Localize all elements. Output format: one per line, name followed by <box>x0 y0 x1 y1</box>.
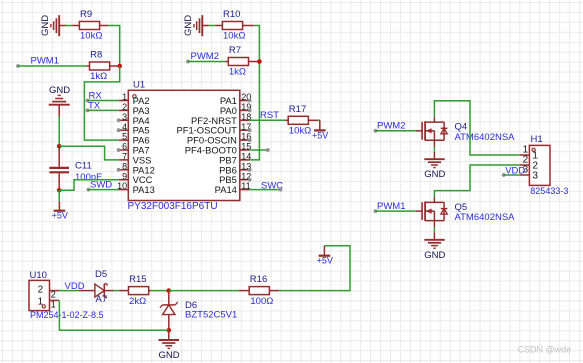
op-amp U1 body PY32F003F16P6TU <box>128 80 240 213</box>
U1 pin 6 PA7 <box>119 142 150 156</box>
ground GND (below Q5) <box>424 240 445 261</box>
svg-text:U1: U1 <box>133 80 145 91</box>
svg-text:PA13: PA13 <box>133 184 155 195</box>
svg-text:R9: R9 <box>80 9 92 20</box>
wire PWM2 to Q4 gate <box>376 130 416 132</box>
U1 pin 17 PF1-OSCOUT <box>176 122 251 136</box>
wire TX to pin 2 <box>88 109 119 111</box>
wire SWD to pin 10 <box>88 189 118 191</box>
power flag +5V (bottom) <box>317 246 333 266</box>
U10 pin 2 <box>50 290 60 300</box>
junction GND/C11/VSS node <box>57 144 62 149</box>
ground GND (bottom) <box>159 330 180 361</box>
svg-text:C11: C11 <box>75 160 92 171</box>
transistor Q5 ATM6402NSA <box>416 198 515 241</box>
svg-text:6: 6 <box>122 142 127 152</box>
svg-text:PA14: PA14 <box>215 184 237 195</box>
wire R15 to junction <box>151 290 169 292</box>
svg-text:PY32F003F16P6TU: PY32F003F16P6TU <box>128 201 218 212</box>
svg-text:A7: A7 <box>96 294 108 305</box>
H1 pin 1 <box>520 145 539 162</box>
net label SWC <box>261 180 283 191</box>
svg-text:CSDN @wde: CSDN @wde <box>518 345 572 355</box>
svg-text:7: 7 <box>122 152 127 162</box>
wire GND to R10 <box>209 25 216 27</box>
U1 pin 12 PB5 <box>219 171 251 185</box>
svg-text:10kΩ: 10kΩ <box>80 31 102 42</box>
wire pin 11 SWC <box>249 188 282 192</box>
wire RX to pin 1 <box>88 100 119 102</box>
svg-text:+5V: +5V <box>52 211 68 221</box>
svg-text:1: 1 <box>122 92 127 102</box>
svg-text:R7: R7 <box>229 45 241 56</box>
U1 pin 8 PA12 <box>119 161 155 175</box>
junction R15/R16/D6 node <box>167 288 172 293</box>
svg-text:R10: R10 <box>223 9 240 20</box>
wire R10 right down to U1 pin 14 <box>249 26 259 160</box>
wire U10 pin 1 to D6 bottom <box>59 300 168 330</box>
net label PWM1 (left) <box>16 56 59 68</box>
svg-text:D5: D5 <box>95 269 107 280</box>
svg-text:PWM2: PWM2 <box>191 51 220 62</box>
diode D6 BZT52C6V1 zener <box>160 293 237 330</box>
svg-text:2kΩ: 2kΩ <box>129 296 146 307</box>
resistor R7 1k&#937; <box>225 45 257 78</box>
wire VDD to H1 pin 3 <box>504 174 520 176</box>
svg-text:BZT52C5V1: BZT52C5V1 <box>185 310 237 321</box>
U1 pin 7 VSS <box>119 152 152 166</box>
net label TX <box>86 100 101 112</box>
svg-text:10kΩ: 10kΩ <box>289 126 311 137</box>
wire R16 to +5V <box>279 246 350 291</box>
wire GND to R9 <box>66 25 73 27</box>
U1 pin 13 PB6 <box>219 161 251 175</box>
H1 pin 3 <box>520 165 539 182</box>
wire junction to R16 <box>169 290 239 292</box>
resistor R9 10k&#937; <box>72 9 108 42</box>
ground GND (above C11) <box>49 85 71 116</box>
junction R8/R9 node <box>117 64 122 69</box>
diode D5 A7 <box>80 269 114 305</box>
svg-text:3: 3 <box>122 112 127 122</box>
H1 pin 2 <box>520 155 539 172</box>
svg-text:RST: RST <box>260 110 279 121</box>
U1 pin 2 PA3 <box>119 102 150 116</box>
svg-text:R15: R15 <box>129 274 146 285</box>
transistor Q4 ATM6402NSA <box>416 117 515 160</box>
U1 pin 9 VCC <box>119 171 153 185</box>
svg-text:10kΩ: 10kΩ <box>223 31 245 42</box>
connector U10 PM254-1-02-Z-8.5 body <box>29 270 104 320</box>
junction R7/R10 node <box>257 59 262 64</box>
svg-text:14: 14 <box>241 152 251 162</box>
net label SWD <box>87 179 113 191</box>
wire junction to U1 pin 7 VSS <box>59 146 119 160</box>
net label RX <box>86 90 103 102</box>
resistor R17 10k&#937; <box>285 104 320 137</box>
U1 pin 19 PA0 <box>220 102 251 116</box>
svg-text:PWM1: PWM1 <box>31 56 60 67</box>
wire PWM1 to Q5 gate <box>376 210 416 212</box>
resistor R8 1k&#937; <box>87 50 117 83</box>
svg-text:2: 2 <box>38 285 44 296</box>
wire GND down to junction <box>58 117 60 147</box>
svg-text:ATM6402NSA: ATM6402NSA <box>455 212 516 223</box>
watermark <box>518 345 572 355</box>
svg-text:ATM6402NSA: ATM6402NSA <box>455 132 516 143</box>
svg-text:2: 2 <box>51 290 56 300</box>
U1 pin 10 PA13 <box>117 181 155 195</box>
net label PWM1 (at Q5) <box>374 201 406 213</box>
wire Q4 drain to H1 pin 1 <box>434 101 519 155</box>
U1 pin 3 PA4 <box>119 112 150 126</box>
wire PWM1 to R8 <box>18 65 87 67</box>
svg-text:11: 11 <box>241 181 250 191</box>
svg-text:+5V: +5V <box>317 256 333 266</box>
net label PWM2 (top) <box>186 51 219 63</box>
svg-text:8: 8 <box>122 161 127 171</box>
wire junction to U1 pin 9 VCC <box>59 180 119 191</box>
U1 pin 4 PA5 <box>119 122 150 136</box>
svg-text:SWD: SWD <box>90 179 112 190</box>
wire U1 pin 15 dangling <box>249 148 269 152</box>
svg-text:GND: GND <box>424 169 445 180</box>
net label VDD (at U10) <box>65 281 85 292</box>
resistor R15 2k&#937; <box>120 274 152 307</box>
wire D5 to R15 <box>114 290 120 292</box>
svg-text:PM254-1-02-Z-8.5: PM254-1-02-Z-8.5 <box>30 310 104 320</box>
power flag +5V (below C11) <box>52 190 68 220</box>
svg-text:H1: H1 <box>531 134 543 145</box>
U1 pin 14 PB7 <box>219 152 251 166</box>
resistor R10 10k&#937; <box>215 9 254 42</box>
connector H1 825433-3 body <box>529 134 568 196</box>
svg-text:GND: GND <box>183 15 194 36</box>
junction C11/+5V/VCC node <box>57 188 62 193</box>
svg-text:3: 3 <box>532 171 538 182</box>
wire PWM2 to R7 <box>188 61 225 63</box>
U1 pin 5 PA6 <box>119 132 150 146</box>
svg-text:+5V: +5V <box>312 130 328 140</box>
svg-text:PWM1: PWM1 <box>377 201 406 212</box>
resistor R16 100&#937; <box>239 274 279 307</box>
net label RST <box>260 110 279 121</box>
svg-text:GND: GND <box>40 15 51 36</box>
wire U10 pin 2 to D5 <box>59 290 80 292</box>
svg-text:PWM2: PWM2 <box>377 121 406 132</box>
svg-text:2: 2 <box>122 102 127 112</box>
U10 pin 1 <box>50 300 60 310</box>
svg-text:R17: R17 <box>289 104 306 115</box>
svg-text:100Ω: 100Ω <box>250 296 273 307</box>
wire junction down-left to U1 pin 5 <box>84 66 119 140</box>
U1 pin 16 PF0-OSCIN <box>187 132 251 146</box>
svg-text:5: 5 <box>122 132 127 142</box>
U1 pin 1 PA2 <box>119 92 150 106</box>
wire Q5 drain to H1 pin 2 <box>434 165 519 198</box>
U1 pin 15 PF4-BOOT0 <box>185 142 252 156</box>
ground GND (top-left, rotated, feeds R9) <box>40 15 66 36</box>
ground GND (below Q4) <box>424 159 445 180</box>
wire pin 18 to R17 <box>249 119 285 121</box>
U1 pin 20 PA1 <box>220 92 251 106</box>
svg-text:GND: GND <box>49 85 70 96</box>
junction D6/GND node <box>167 328 172 333</box>
capacitor C11 100nF <box>49 146 102 190</box>
svg-text:9: 9 <box>122 171 127 181</box>
svg-text:4: 4 <box>122 122 127 132</box>
net label VDD (at H1) <box>502 165 526 177</box>
U1 pin 18 PF2-NRST <box>191 112 251 126</box>
svg-text:R16: R16 <box>250 274 267 285</box>
svg-text:R8: R8 <box>90 50 102 61</box>
svg-text:GND: GND <box>159 350 180 361</box>
no-connect dots U1 left pins 3 4 6 8 <box>117 118 121 171</box>
svg-text:1kΩ: 1kΩ <box>229 67 246 78</box>
no-connect dots U1 right pins 20 19 17 16 13 12 <box>248 99 252 182</box>
power flag +5V (at R17) <box>312 120 328 140</box>
svg-text:1kΩ: 1kΩ <box>90 71 107 82</box>
svg-text:GND: GND <box>424 250 445 261</box>
ground GND (top-middle, rotated, feeds R10) <box>183 15 209 36</box>
svg-text:1: 1 <box>51 300 56 310</box>
wire R9 right to junction below <box>108 26 120 67</box>
U1 pin 11 PA14 <box>215 181 251 195</box>
svg-text:U10: U10 <box>30 270 47 281</box>
net label PWM2 (at Q4) <box>374 121 406 133</box>
svg-text:825433-3: 825433-3 <box>530 186 568 196</box>
